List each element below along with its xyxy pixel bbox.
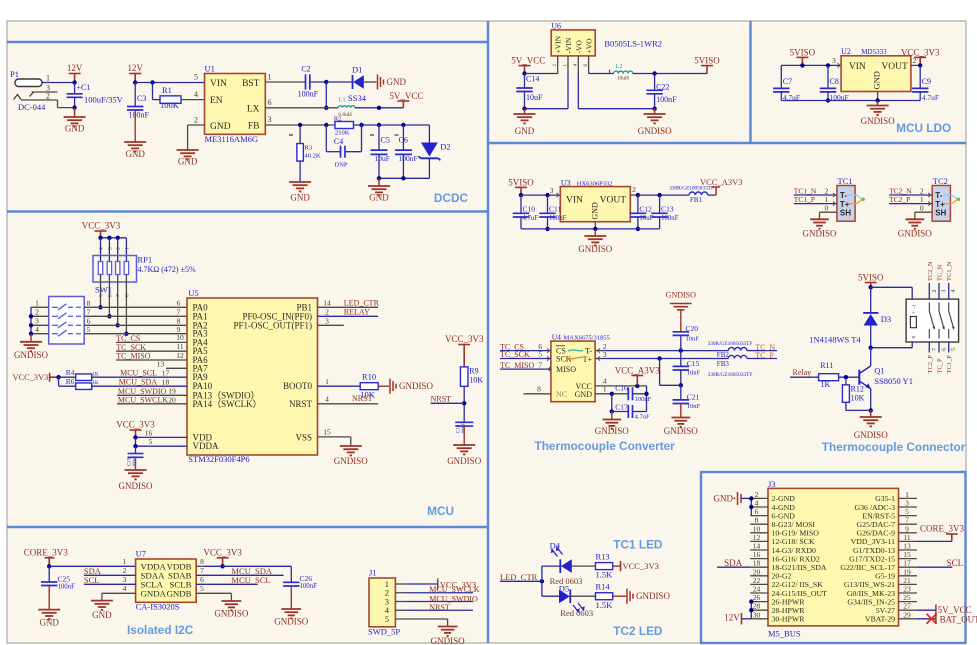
svg-text:MCU: MCU: [427, 504, 454, 518]
svg-text:17: 17: [162, 369, 170, 378]
SH pin to GNDISO: [820, 211, 837, 213]
svg-text:NRST: NRST: [431, 395, 452, 404]
svg-text:2: 2: [116, 247, 122, 250]
pin stub J1: [395, 601, 405, 603]
svg-text:3: 3: [268, 115, 272, 124]
pin stub J3 left: [750, 497, 768, 499]
svg-text:MCU_SCL: MCU_SCL: [120, 369, 157, 378]
relay bottom pins to TC nets: [928, 342, 930, 353]
relay top pins to TC nets: [928, 283, 930, 299]
ground GND (output caps): [378, 178, 380, 186]
svg-text:1: 1: [35, 299, 39, 308]
svg-text:FB3: FB3: [717, 360, 730, 368]
svg-text:2: 2: [932, 290, 938, 293]
SW1 left pins tied to GNDISO: [31, 306, 49, 308]
svg-text:TC2 LED: TC2 LED: [613, 624, 663, 638]
svg-text:FB2: FB2: [717, 351, 730, 359]
resistor R9 10K: [460, 367, 468, 387]
svg-text:CA-IS3020S: CA-IS3020S: [136, 602, 180, 612]
svg-text:PA14（SWCLK）: PA14（SWCLK）: [193, 399, 262, 409]
svg-text:SS34: SS34: [348, 93, 367, 103]
svg-text:8: 8: [537, 384, 541, 393]
svg-text:6: 6: [942, 348, 948, 351]
net LED_CTR: [318, 306, 379, 308]
svg-text:EN: EN: [210, 96, 223, 106]
stub PF1 pin 3: [318, 324, 344, 326]
svg-text:NRST: NRST: [352, 394, 373, 403]
U7 GNDB pin 5: [196, 592, 231, 594]
net MCU_SDA wire: [92, 385, 187, 387]
pin stub J3 left: [750, 523, 768, 525]
capacitor C25 100nF: [48, 566, 50, 582]
svg-text:11: 11: [176, 342, 183, 351]
ground GND (U1): [177, 150, 199, 159]
svg-text:MCU_SWCLK: MCU_SWCLK: [118, 395, 168, 404]
capacitor C15 10nF: [680, 351, 682, 367]
svg-text:GNDA: GNDA: [141, 589, 167, 599]
svg-text:GND: GND: [125, 149, 145, 159]
svg-text:10uF: 10uF: [375, 154, 390, 163]
stub PA7 pin 13: [166, 367, 187, 369]
ground GND (input): [524, 109, 526, 114]
pin stub J3 left: [750, 515, 768, 517]
power flag CORE_3V3 (VDD_3V3): [917, 540, 952, 542]
P1 pin 2 contact wire: [21, 99, 58, 101]
wire U7 pin 8 to C26: [196, 565, 204, 567]
svg-text:100nF: 100nF: [129, 110, 150, 119]
svg-text:R13: R13: [596, 551, 610, 561]
wire BST node down to LX rail: [325, 82, 327, 108]
svg-text:B0505LS-1WR2: B0505LS-1WR2: [604, 39, 662, 49]
svg-text:LED_CTR: LED_CTR: [344, 299, 380, 308]
svg-text:C9: C9: [922, 77, 931, 86]
relay K1: [906, 299, 959, 342]
svg-text:Thermocouple Converter: Thermocouple Converter: [535, 439, 676, 453]
svg-text:J1: J1: [369, 568, 377, 578]
pin stub J3 left: [750, 558, 768, 560]
svg-text:13: 13: [157, 360, 165, 369]
svg-text:MCU LDO: MCU LDO: [896, 121, 951, 135]
ground GND (C25): [38, 610, 60, 619]
svg-text:C16: C16: [615, 384, 628, 393]
svg-text:VIN: VIN: [849, 62, 866, 72]
ground GND power-port (D1): [378, 75, 384, 90]
pin stub J3 left: [750, 575, 768, 577]
svg-text:4.7uF: 4.7uF: [635, 414, 650, 421]
svg-text:D3: D3: [881, 314, 891, 324]
power flag VCC_3V3 (RP1): [95, 231, 107, 238]
capacitor C8 100nF: [827, 65, 829, 88]
svg-text:210K: 210K: [335, 130, 350, 137]
svg-text:GND: GND: [92, 610, 112, 620]
antenna glyph: [848, 195, 863, 199]
svg-text:T-: T-: [935, 191, 942, 200]
svg-text:330R/GZ1005033TF: 330R/GZ1005033TF: [708, 341, 753, 347]
power flag 5V_VCC: [397, 101, 409, 108]
svg-text:5: 5: [87, 325, 91, 334]
svg-text:1: 1: [325, 377, 329, 386]
wire R1 to U1 EN pin 4: [181, 99, 205, 101]
J1 pin 5 to GNDISO: [395, 618, 447, 620]
svg-text:R4: R4: [66, 368, 75, 377]
svg-text:MCU_SCL: MCU_SCL: [231, 575, 270, 585]
svg-text:1.5K: 1.5K: [596, 600, 614, 610]
svg-text:J3: J3: [768, 479, 776, 489]
ground GND (C1): [74, 108, 76, 117]
svg-text:GND: GND: [387, 77, 407, 87]
svg-text:100nF: 100nF: [635, 396, 652, 403]
power flag VCC_3V3 (R4/R6): [50, 373, 59, 382]
svg-text:VIN: VIN: [566, 196, 583, 206]
svg-text:TC1: TC1: [838, 176, 853, 186]
ground GNDISO (U3): [594, 229, 596, 236]
net TC_N: [747, 350, 777, 352]
isolated bottom rail: [578, 108, 654, 110]
power flag 5VISO (U3): [515, 187, 527, 195]
svg-text:6: 6: [177, 299, 181, 308]
capacitor C26 100nF: [290, 566, 292, 582]
svg-text:NC: NC: [556, 390, 567, 399]
svg-text:GNDB: GNDB: [167, 589, 192, 599]
svg-text:GND: GND: [714, 494, 734, 504]
svg-text:4: 4: [35, 325, 39, 334]
svg-text:R14: R14: [596, 582, 611, 592]
svg-text:1: 1: [124, 247, 130, 250]
svg-text:5: 5: [385, 614, 389, 624]
svg-text:TC1_P: TC1_P: [794, 195, 815, 204]
svg-text:12V: 12V: [724, 612, 740, 622]
diode D2 zener: [428, 125, 430, 143]
svg-text:30: 30: [753, 610, 761, 619]
svg-text:LED_CTR: LED_CTR: [500, 572, 538, 582]
svg-text:40.2K: 40.2K: [305, 153, 321, 160]
pin stub J3 right: [899, 592, 917, 594]
svg-text:R12: R12: [851, 385, 864, 394]
net NRST (U5): [318, 403, 379, 405]
U5 VSS to GNDISO: [318, 436, 351, 438]
svg-text:GNDISO: GNDISO: [638, 126, 673, 136]
svg-text:5VISO: 5VISO: [694, 56, 720, 66]
net RELAY: [318, 315, 379, 317]
svg-text:C14: C14: [526, 75, 539, 84]
pin stub J3 right: [899, 583, 917, 585]
svg-text:19: 19: [168, 387, 176, 396]
svg-text:FB1: FB1: [690, 196, 703, 204]
svg-text:10uF: 10uF: [526, 93, 543, 102]
svg-text:C17: C17: [615, 403, 628, 412]
power flag VCC_3V3 (VDD): [130, 430, 142, 437]
ground GNDISO (SW1): [20, 342, 42, 351]
svg-text:GNDISO: GNDISO: [802, 229, 837, 239]
svg-text:DCDC: DCDC: [434, 191, 469, 205]
capacitor C4 DNP: [325, 125, 327, 152]
svg-text:3: 3: [603, 350, 607, 359]
power flag 5VISO (LDO in): [796, 57, 808, 65]
ground GNDISO (C22): [654, 109, 656, 114]
svg-text:4: 4: [951, 290, 957, 293]
pin stub J3 right: [899, 558, 917, 560]
pin stub J1: [395, 583, 405, 585]
wire RP1 leg to PA row: [125, 275, 127, 334]
ground GNDISO (U7B): [222, 601, 242, 610]
svg-text:DC-044: DC-044: [18, 102, 46, 112]
svg-text:GND: GND: [872, 71, 882, 89]
svg-text:MCU_SDA: MCU_SDA: [119, 378, 157, 387]
svg-text:10K: 10K: [469, 376, 483, 385]
wire 5VISO to relay pin 1: [871, 286, 913, 288]
wire L2 to 5VISO: [633, 73, 707, 75]
svg-text:DNP: DNP: [335, 162, 348, 169]
resistor R1 100K: [152, 83, 154, 100]
ground GND (U7A): [91, 601, 113, 610]
svg-text:TC1_N: TC1_N: [946, 261, 953, 281]
svg-text:7: 7: [87, 308, 91, 317]
wire U1 FB pin 3: [265, 124, 335, 126]
ground GND (R3): [289, 182, 311, 191]
svg-text:T+: T+: [583, 355, 593, 364]
svg-text:NRST: NRST: [289, 399, 313, 409]
svg-text:VOUT: VOUT: [600, 196, 627, 206]
svg-text:5V_VCC: 5V_VCC: [938, 605, 972, 615]
svg-text:3: 3: [107, 247, 113, 250]
svg-text:C26: C26: [300, 574, 313, 583]
ground GNDISO (TC2): [905, 219, 924, 228]
svg-text:2: 2: [123, 566, 127, 575]
svg-text:2: 2: [632, 185, 636, 194]
svg-text:4: 4: [194, 90, 198, 99]
svg-text:R9: R9: [469, 367, 478, 376]
svg-text:D1: D1: [352, 65, 362, 75]
svg-text:U7: U7: [136, 549, 146, 559]
svg-text:+: +: [912, 311, 916, 317]
svg-text:SW1: SW1: [95, 285, 112, 295]
capacitor C21 10nF: [680, 385, 682, 400]
power flag 5VISO (relay): [865, 283, 877, 288]
svg-text:2: 2: [46, 92, 50, 101]
svg-text:5: 5: [951, 348, 957, 351]
wire 5V_VCC to +VIN: [525, 73, 558, 75]
svg-text:GND: GND: [39, 618, 59, 628]
svg-text:10nF: 10nF: [686, 336, 700, 343]
pin stub J1: [395, 609, 405, 611]
svg-text:VDDA: VDDA: [193, 441, 219, 451]
svg-text:GNDISO: GNDISO: [274, 617, 309, 627]
svg-text:SWD_5P: SWD_5P: [368, 627, 400, 637]
svg-text:C4: C4: [334, 137, 343, 146]
svg-text:P1: P1: [10, 69, 19, 79]
svg-text:GND: GND: [591, 202, 600, 220]
svg-text:5: 5: [149, 437, 153, 446]
svg-text:100nF: 100nF: [298, 90, 319, 99]
U3 ground rail: [521, 228, 660, 230]
svg-text:VCC_A3V3: VCC_A3V3: [615, 365, 661, 375]
svg-text:GND: GND: [515, 126, 535, 136]
U1 GND pin 2 to ground: [188, 124, 205, 126]
svg-text:5: 5: [200, 584, 204, 593]
svg-text:GNDISO: GNDISO: [447, 456, 482, 466]
svg-text:VIN: VIN: [210, 79, 227, 89]
svg-text:C12: C12: [639, 205, 652, 214]
pin stub J3 right: [899, 575, 917, 577]
svg-text:VCC_3V3: VCC_3V3: [203, 548, 242, 558]
svg-text:TC_MISO: TC_MISO: [500, 361, 534, 370]
svg-text:R3: R3: [305, 145, 313, 152]
capacitor C9 4.7uF: [919, 65, 921, 88]
svg-text:GNDISO: GNDISO: [214, 609, 249, 619]
svg-text:7: 7: [538, 360, 542, 369]
svg-text:18: 18: [162, 378, 170, 387]
svg-text:D2: D2: [440, 142, 450, 152]
svg-text:Thermocouple Connector: Thermocouple Connector: [822, 440, 966, 454]
power flag 5VISO: [701, 66, 713, 74]
svg-text:4: 4: [325, 395, 329, 404]
ground GNDISO power-port (R10): [390, 379, 396, 394]
svg-text:4: 4: [123, 584, 127, 593]
svg-text:10uH: 10uH: [617, 76, 629, 82]
svg-text:TC2_P: TC2_P: [889, 195, 910, 204]
svg-text:0: 0: [825, 204, 829, 213]
svg-text:GND: GND: [575, 390, 593, 399]
net BAT_OUT with no-connect X: [917, 618, 936, 620]
svg-text:C25: C25: [58, 574, 71, 583]
input wire to U3 VIN pin 3: [521, 194, 560, 196]
svg-text:1.5K: 1.5K: [596, 570, 614, 580]
ground GNDISO (C10): [453, 445, 475, 454]
antenna glyph: [943, 195, 958, 199]
svg-text:3: 3: [123, 575, 127, 584]
wires VDD VDDA: [136, 436, 188, 438]
svg-text:C3: C3: [137, 94, 146, 103]
svg-text:M5_BUS: M5_BUS: [768, 629, 801, 639]
svg-text:5VISO: 5VISO: [508, 177, 534, 187]
svg-text:10nF: 10nF: [687, 370, 701, 377]
wires SW1 to U5 PA0..PA3: [84, 306, 187, 308]
svg-text:14: 14: [323, 299, 331, 308]
pin stub J3 left: [750, 618, 768, 620]
power VCC_3V3 (R13): [620, 561, 622, 571]
power flag 12V (C3 node): [129, 74, 141, 83]
svg-text:20: 20: [168, 395, 176, 404]
svg-text:C5: C5: [381, 136, 390, 145]
svg-text:12: 12: [176, 351, 184, 360]
transistor Q1 SS8050: [870, 348, 872, 366]
svg-text:-VO: -VO: [574, 40, 583, 54]
resistor R3 40.2K: [299, 125, 301, 144]
svg-text:D4: D4: [550, 541, 561, 551]
wire U1 LX pin 6: [265, 107, 338, 109]
svg-text:4: 4: [99, 247, 105, 250]
svg-text:TC_N: TC_N: [937, 264, 944, 281]
svg-text:STM32F030F4P6: STM32F030F4P6: [188, 454, 249, 464]
svg-text:8: 8: [124, 294, 130, 297]
svg-text:100nF: 100nF: [300, 583, 318, 590]
input wire: [781, 64, 841, 66]
pin stub J3 left: [750, 592, 768, 594]
U4 VCC pin 4: [595, 385, 646, 387]
power flag 5V_VCC: [519, 66, 531, 74]
svg-text:1: 1: [268, 73, 272, 82]
capacitor C17 4.7uF: [611, 394, 613, 412]
resistor R12 10K: [845, 377, 847, 385]
capacitor C15 100nF (VDD): [135, 446, 137, 453]
pin stub J3 right: [899, 566, 917, 568]
svg-text:TC_P: TC_P: [937, 358, 944, 374]
svg-text:10K: 10K: [851, 394, 865, 403]
inductor L2 10uH: [589, 73, 614, 75]
svg-text:GNDISO: GNDISO: [664, 426, 699, 436]
pin stub J3 right: [899, 618, 917, 620]
svg-text:SDA: SDA: [724, 558, 743, 568]
svg-text:+C1: +C1: [77, 83, 91, 92]
svg-text:5V_VCC: 5V_VCC: [511, 56, 545, 66]
svg-text:100nF: 100nF: [661, 215, 679, 222]
svg-text:2: 2: [35, 308, 39, 317]
svg-text:GNDISO: GNDISO: [578, 244, 613, 254]
pin stub J1: [395, 592, 405, 594]
pin stub J3 left: [750, 506, 768, 508]
svg-text:LX: LX: [247, 105, 260, 115]
svg-text:100nF: 100nF: [656, 95, 677, 104]
svg-text:10: 10: [176, 333, 184, 342]
power flag VCC_3V3 (LDO out): [914, 57, 926, 65]
pin stub J3 right: [899, 497, 917, 499]
svg-text:3: 3: [550, 186, 554, 195]
svg-text:GND: GND: [369, 193, 389, 203]
ground GNDISO (C21): [671, 418, 690, 427]
ground GNDISO (C26): [281, 609, 301, 618]
net VCC_3V3 (J1): [405, 583, 438, 585]
svg-text:SCL: SCL: [84, 575, 100, 585]
svg-text:VCC_3V3: VCC_3V3: [445, 334, 484, 344]
svg-text:MISO: MISO: [556, 365, 576, 374]
pin stub J3 left: [750, 540, 768, 542]
svg-text:5VISO: 5VISO: [858, 272, 884, 282]
svg-text:VCC_3V3: VCC_3V3: [901, 47, 940, 57]
svg-text:RELAY: RELAY: [344, 308, 370, 317]
svg-text:1: 1: [603, 384, 607, 393]
svg-text:8: 8: [87, 299, 91, 308]
svg-text:U5: U5: [188, 288, 198, 298]
pin stub J3 left: [750, 566, 768, 568]
svg-text:TC2_N: TC2_N: [927, 261, 934, 281]
svg-text:RP1: RP1: [138, 255, 153, 265]
svg-text:3: 3: [325, 317, 329, 326]
svg-text:Relay: Relay: [793, 368, 812, 377]
pin stub J3 right: [899, 549, 917, 551]
svg-text:GNDISO: GNDISO: [595, 426, 630, 436]
svg-text:VCC_3V3: VCC_3V3: [623, 561, 659, 571]
svg-text:GNDISO: GNDISO: [431, 636, 466, 645]
svg-text:VCC_3V3: VCC_3V3: [13, 373, 49, 382]
relay contacts: [929, 303, 934, 339]
svg-text:100nF: 100nF: [461, 422, 466, 434]
svg-text:L1: L1: [339, 98, 346, 104]
svg-text:MD5333: MD5333: [861, 48, 887, 56]
svg-text:12V: 12V: [67, 63, 83, 73]
svg-text:C10: C10: [523, 205, 536, 214]
svg-text:U2: U2: [841, 47, 851, 56]
svg-text:C2: C2: [301, 65, 310, 74]
svg-text:100K: 100K: [160, 100, 180, 110]
LDO ground rail: [781, 100, 920, 102]
net TC_P: [747, 358, 777, 360]
svg-text:4.7uF: 4.7uF: [523, 215, 539, 222]
svg-text:1N4148WS T4: 1N4148WS T4: [809, 335, 861, 345]
pin stub J3 left: [750, 601, 768, 603]
svg-text:1: 1: [46, 74, 50, 83]
svg-text:100nF: 100nF: [399, 154, 418, 163]
svg-text:TC2_P: TC2_P: [927, 355, 934, 374]
